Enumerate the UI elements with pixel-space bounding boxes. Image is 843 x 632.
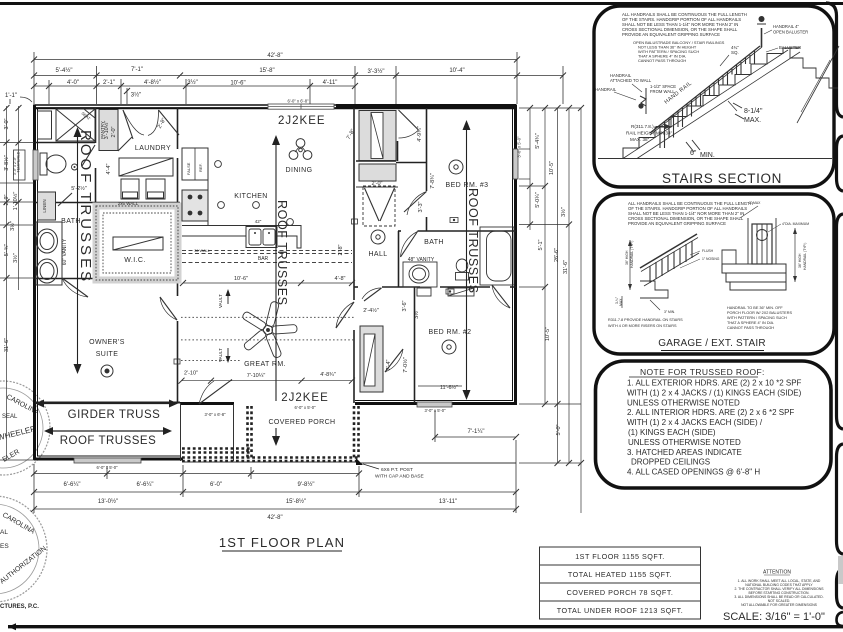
svg-text:3½": 3½" — [187, 79, 197, 86]
svg-text:7'-1": 7'-1" — [131, 67, 143, 73]
svg-text:7'-4": 7'-4" — [386, 359, 392, 370]
svg-text:2'-0": 2'-0" — [372, 181, 383, 187]
svg-text:60" VANITY: 60" VANITY — [62, 238, 68, 265]
svg-text:3" MIN.: 3" MIN. — [664, 310, 675, 314]
svg-text:31'-6": 31'-6" — [563, 260, 569, 274]
svg-text:WITH (1) 2 x 4 JACKS EACH (SID: WITH (1) 2 x 4 JACKS EACH (SIDE) / — [627, 418, 763, 427]
svg-text:10'-4": 10'-4" — [449, 68, 464, 74]
svg-text:COVERED PORCH 78 SQFT.: COVERED PORCH 78 SQFT. — [567, 588, 674, 597]
svg-text:OWNER'S: OWNER'S — [89, 339, 125, 346]
svg-text:3½": 3½" — [12, 253, 19, 263]
svg-text:R(311.7.8.): R(311.7.8.) — [631, 124, 654, 129]
svg-text:10'-5": 10'-5" — [545, 327, 551, 341]
svg-text:TOTAL HEATED 1155 SQFT.: TOTAL HEATED 1155 SQFT. — [568, 570, 672, 579]
svg-text:PROVIDE AN EQUIVALENT GRIPPING: PROVIDE AN EQUIVALENT GRIPPING SURFACE — [628, 221, 726, 226]
svg-text:5'-0¼": 5'-0¼" — [535, 192, 541, 208]
svg-text:3'-0" x 5'-0": 3'-0" x 5'-0" — [424, 408, 446, 413]
svg-text:15'-8½": 15'-8½" — [286, 498, 306, 505]
svg-text:6'-6¼": 6'-6¼" — [137, 482, 154, 488]
svg-text:3'-3": 3'-3" — [418, 201, 424, 212]
svg-text:ROOF TRUSSES: ROOF TRUSSES — [275, 200, 289, 306]
svg-text:MAX: MAX — [619, 298, 623, 306]
svg-text:7'-10¼": 7'-10¼" — [247, 373, 266, 379]
svg-text:BAR: BAR — [258, 256, 269, 262]
svg-text:7'-8¾": 7'-8¾" — [430, 173, 436, 189]
svg-text:HANDRAIL TO BE 36" MIN. OFF: HANDRAIL TO BE 36" MIN. OFF — [727, 306, 783, 310]
svg-text:VAULT: VAULT — [218, 294, 223, 308]
svg-text:4'-8¾": 4'-8¾" — [320, 372, 336, 378]
svg-text:36" HIGH: 36" HIGH — [798, 253, 802, 268]
svg-text:15'-8": 15'-8" — [259, 68, 274, 74]
svg-text:MAX.: MAX. — [744, 117, 761, 124]
svg-text:NOT ALLOWABLE FOR GREATER DIME: NOT ALLOWABLE FOR GREATER DIMENSIONS — [741, 603, 818, 607]
svg-text:2J2KEE: 2J2KEE — [278, 115, 326, 127]
svg-text:2'-4½": 2'-4½" — [363, 307, 379, 314]
svg-text:DINING: DINING — [286, 167, 313, 174]
svg-text:ROOF TRUSSES: ROOF TRUSSES — [77, 130, 94, 284]
svg-text:UNLESS OTHERWISE NOTED: UNLESS OTHERWISE NOTED — [627, 398, 740, 407]
svg-text:1ST FLOOR PLAN: 1ST FLOOR PLAN — [219, 535, 345, 550]
svg-text:BATH: BATH — [424, 239, 444, 246]
svg-text:FLUSH: FLUSH — [702, 249, 714, 253]
svg-text:GREAT RM.: GREAT RM. — [244, 361, 286, 368]
svg-text:3½": 3½" — [560, 207, 567, 217]
svg-text:9'-8½": 9'-8½" — [298, 481, 315, 488]
svg-text:3'-0" x 5'-0": 3'-0" x 5'-0" — [517, 136, 522, 158]
svg-text:10'-6": 10'-6" — [234, 276, 248, 282]
svg-text:CANNOT PASS THROUGH: CANNOT PASS THROUGH — [727, 326, 774, 330]
svg-text:1" NOSING: 1" NOSING — [702, 257, 720, 261]
svg-text:FALSE: FALSE — [186, 162, 191, 175]
svg-text:10'-6": 10'-6" — [230, 81, 245, 87]
svg-text:3'-8½": 3'-8½" — [3, 155, 10, 171]
svg-text:6'-6¼": 6'-6¼" — [64, 482, 81, 488]
svg-text:2'-8": 2'-8" — [338, 244, 344, 255]
svg-text:13'-11": 13'-11" — [439, 499, 457, 505]
svg-text:2'-9": 2'-9" — [4, 194, 10, 205]
svg-text:CANNOT PASS THROUGH: CANNOT PASS THROUGH — [638, 58, 686, 63]
svg-text:6'-0" x 6'-8": 6'-0" x 6'-8" — [287, 99, 309, 104]
svg-text:6'-0" x 5'-0": 6'-0" x 5'-0" — [294, 405, 316, 410]
svg-text:SCALE: 3/16" = 1'-0": SCALE: 3/16" = 1'-0" — [723, 611, 825, 623]
svg-text:UNLESS OTHERWISE NOTED: UNLESS OTHERWISE NOTED — [628, 438, 741, 447]
svg-text:48" VANITY: 48" VANITY — [408, 257, 435, 263]
svg-text:FROM WALL: FROM WALL — [650, 89, 675, 94]
svg-text:8-1/4": 8-1/4" — [744, 108, 763, 115]
svg-text:HANDRAIL (TYP.): HANDRAIL (TYP.) — [630, 241, 634, 268]
svg-text:4'-8": 4'-8" — [335, 276, 346, 282]
svg-text:6'-0" x 5'-0": 6'-0" x 5'-0" — [96, 465, 118, 470]
svg-text:ES: ES — [0, 543, 9, 550]
svg-text:OPEN BALUSTER: OPEN BALUSTER — [773, 30, 808, 35]
svg-text:SQ.: SQ. — [731, 50, 739, 55]
svg-text:ROOF TRUSSES: ROOF TRUSSES — [60, 435, 157, 447]
svg-text:4'-11": 4'-11" — [323, 80, 338, 86]
svg-text:NOTE FOR TRUSSED ROOF:: NOTE FOR TRUSSED ROOF: — [640, 367, 765, 377]
svg-text:4'-9¾": 4'-9¾" — [417, 126, 423, 142]
svg-text:5'-4¾": 5'-4¾" — [535, 133, 541, 149]
svg-text:DROPPED CEILINGS: DROPPED CEILINGS — [631, 458, 710, 467]
svg-text:HANDRAIL (TYP.): HANDRAIL (TYP.) — [803, 243, 807, 270]
svg-text:THAT A SPHERE 4" IN DIA.: THAT A SPHERE 4" IN DIA. — [727, 321, 774, 325]
svg-text:W.I.C.: W.I.C. — [124, 257, 145, 264]
svg-text:PORCH FLOOR W/ 2X2 BALUSTERS: PORCH FLOOR W/ 2X2 BALUSTERS — [727, 311, 792, 315]
svg-text:36 WALL: 36 WALL — [194, 249, 209, 253]
svg-text:1'-10½": 1'-10½" — [12, 192, 19, 211]
svg-text:LINEN: LINEN — [42, 199, 47, 212]
svg-text:4'-8½": 4'-8½" — [144, 79, 161, 86]
svg-text:STAIRS SECTION: STAIRS SECTION — [662, 171, 782, 186]
svg-text:2" MAX: 2" MAX — [749, 201, 761, 205]
svg-text:5'-0": 5'-0" — [556, 424, 562, 435]
svg-text:2x6 WALL: 2x6 WALL — [118, 201, 139, 206]
svg-text:VAULT: VAULT — [218, 348, 223, 362]
svg-text:6'-0": 6'-0" — [210, 482, 222, 488]
svg-text:HANDRAIL 4": HANDRAIL 4" — [773, 24, 800, 29]
svg-text:COVERED PORCH: COVERED PORCH — [268, 419, 335, 426]
svg-text:ATTENTION: ATTENTION — [763, 570, 791, 576]
svg-text:13'-0½": 13'-0½" — [98, 498, 118, 505]
svg-text:WITH (1) 2 x 4 JACKS / (1) KIN: WITH (1) 2 x 4 JACKS / (1) KINGS EACH (S… — [627, 388, 802, 397]
svg-text:10'-5": 10'-5" — [549, 161, 555, 175]
svg-text:GIRDER TRUSS: GIRDER TRUSS — [68, 409, 161, 421]
svg-text:WITH CAP AND BASE: WITH CAP AND BASE — [375, 474, 424, 480]
svg-text:CTURES, P.C.: CTURES, P.C. — [0, 604, 39, 610]
svg-text:5'-1": 5'-1" — [538, 239, 544, 250]
svg-text:7'-1¼": 7'-1¼" — [468, 429, 485, 435]
svg-text:PROVIDE AN EQUIVALENT GRIPPING: PROVIDE AN EQUIVALENT GRIPPING SURFACE — [622, 32, 720, 37]
svg-text:3'-0" x 6'-8": 3'-0" x 6'-8" — [204, 412, 226, 417]
svg-text:MIN.: MIN. — [700, 152, 715, 159]
svg-text:RAIL HEIGHT MIN.34": RAIL HEIGHT MIN.34" — [626, 131, 673, 136]
svg-text:2. ALL INTERIOR HDRS. ARE (2): 2. ALL INTERIOR HDRS. ARE (2) 2 x 6 *2 S… — [627, 408, 794, 417]
svg-text:3'-10½": 3'-10½" — [103, 121, 110, 140]
svg-text:5'-4½": 5'-4½" — [56, 67, 73, 74]
svg-text:HALL: HALL — [368, 251, 387, 258]
svg-text:BALUSTER: BALUSTER — [779, 45, 801, 50]
svg-text:4. ALL CASED OPENINGS @ 6'-8": 4. ALL CASED OPENINGS @ 6'-8" H — [627, 468, 760, 477]
svg-text:TOTAL UNDER ROOF 1213 SQFT.: TOTAL UNDER ROOF 1213 SQFT. — [557, 606, 683, 615]
svg-text:SEAL: SEAL — [2, 414, 18, 420]
svg-text:5'-2½": 5'-2½" — [71, 185, 87, 192]
svg-text:3½": 3½" — [131, 92, 141, 99]
svg-text:36" HIGH: 36" HIGH — [625, 250, 629, 265]
svg-text:42": 42" — [255, 219, 262, 224]
svg-text:4"DIA. MAXIMUM: 4"DIA. MAXIMUM — [782, 222, 809, 226]
svg-text:WITH PATTERN / SPACING SUCH: WITH PATTERN / SPACING SUCH — [727, 316, 787, 320]
svg-text:BED RM. #2: BED RM. #2 — [429, 329, 472, 336]
svg-text:3'-6": 3'-6" — [402, 300, 408, 311]
svg-text:1. ALL EXTERIOR HDRS. ARE (2): 1. ALL EXTERIOR HDRS. ARE (2) 2 x 10 *2 … — [627, 379, 802, 388]
svg-text:SUITE: SUITE — [96, 351, 119, 358]
svg-text:WITH 4 OR MORE RISERS ON STAIR: WITH 4 OR MORE RISERS ON STAIRS — [608, 324, 677, 328]
svg-text:REF.: REF. — [198, 163, 203, 172]
svg-text:42'-8": 42'-8" — [267, 53, 282, 59]
svg-text:4'-0": 4'-0" — [67, 80, 79, 86]
svg-text:MAX. 38": MAX. 38" — [630, 137, 650, 142]
svg-text:LAUNDRY: LAUNDRY — [135, 145, 171, 152]
svg-text:ROOF TRUSSES: ROOF TRUSSES — [466, 188, 480, 294]
svg-text:3. HATCHED AREAS INDICATE: 3. HATCHED AREAS INDICATE — [627, 448, 742, 457]
svg-text:HANDRAIL: HANDRAIL — [595, 87, 617, 92]
svg-text:11'-6½": 11'-6½" — [440, 384, 458, 391]
svg-text:TEMPERED: TEMPERED — [17, 151, 21, 172]
svg-text:ATTACHED TO WALL: ATTACHED TO WALL — [610, 78, 652, 83]
svg-text:3½": 3½" — [413, 309, 420, 319]
svg-text:2J2KEE: 2J2KEE — [281, 392, 329, 404]
svg-text:AL: AL — [0, 529, 8, 536]
svg-text:5'-¾": 5'-¾" — [4, 244, 10, 257]
svg-text:3'-3½": 3'-3½" — [368, 68, 385, 75]
svg-text:7'-0½": 7'-0½" — [402, 357, 409, 373]
svg-text:KITCHEN: KITCHEN — [234, 193, 268, 200]
svg-text:4'-4": 4'-4" — [106, 163, 112, 174]
svg-text:R311.7.8 PROVIDE HANDRAIL ON S: R311.7.8 PROVIDE HANDRAIL ON STAIRS — [608, 318, 683, 322]
svg-text:42'-8": 42'-8" — [267, 515, 282, 521]
svg-text:6X6 P.T. POST: 6X6 P.T. POST — [381, 467, 413, 473]
svg-text:2'-1": 2'-1" — [103, 80, 115, 86]
svg-text:2'-10": 2'-10" — [184, 371, 198, 377]
svg-text:31'-6": 31'-6" — [4, 338, 10, 352]
svg-text:3'-0": 3'-0" — [4, 118, 10, 129]
svg-text:26'-6": 26'-6" — [554, 248, 560, 262]
svg-text:3'-0" x 2'-0": 3'-0" x 2'-0" — [13, 156, 17, 175]
svg-text:(1) KINGS EACH (SIDE): (1) KINGS EACH (SIDE) — [628, 428, 716, 437]
svg-text:3½": 3½" — [9, 221, 16, 231]
svg-text:1'-1": 1'-1" — [5, 93, 17, 99]
svg-text:1ST FLOOR 1155 SQFT.: 1ST FLOOR 1155 SQFT. — [575, 552, 665, 561]
svg-text:GARAGE / EXT. STAIR: GARAGE / EXT. STAIR — [658, 338, 766, 349]
svg-text:2'-0": 2'-0" — [111, 126, 117, 137]
